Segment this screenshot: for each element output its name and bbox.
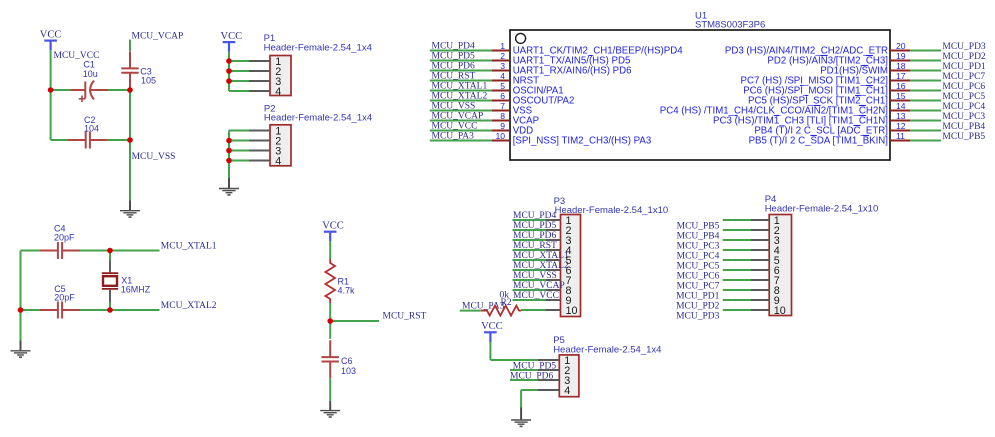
wire MCU_XTAL2 <box>110 309 160 311</box>
svg-text:VCC: VCC <box>40 29 62 40</box>
svg-text:MCU_VSS: MCU_VSS <box>432 102 476 112</box>
svg-text:MCU_RST: MCU_RST <box>383 312 427 322</box>
svg-text:Header-Female-2.54_1x4: Header-Female-2.54_1x4 <box>264 42 372 53</box>
svg-text:MCU_PD6: MCU_PD6 <box>432 62 476 72</box>
U1 pin 19 PD2 (HS)/AIN3/[TIM2_CH3] <box>767 51 941 66</box>
wire P5 pin3 <box>510 379 559 381</box>
power flag VCC (top-left) <box>40 29 62 50</box>
svg-text:19: 19 <box>896 51 906 61</box>
svg-text:MCU_VCC: MCU_VCC <box>513 291 559 301</box>
svg-text:MCU_PC7: MCU_PC7 <box>942 72 985 82</box>
label P5 Header-Female-2.54_1x4 <box>553 335 661 355</box>
header P4 box <box>769 215 791 316</box>
svg-text:6: 6 <box>500 91 505 101</box>
svg-text:MCU_PC4: MCU_PC4 <box>677 252 720 262</box>
svg-text:MCU_XTAL2: MCU_XTAL2 <box>161 301 217 311</box>
svg-text:MCU_PD5: MCU_PD5 <box>513 221 557 231</box>
wire MCU_VCC vertical <box>50 50 52 140</box>
svg-text:105: 105 <box>141 75 156 85</box>
power flag VCC (P5) <box>481 321 503 342</box>
wire xtal left vertical <box>20 251 22 311</box>
label C5 20pF <box>54 284 75 303</box>
header P2 box <box>270 125 291 166</box>
wire C1 left <box>51 89 71 91</box>
svg-text:MCU_PC6: MCU_PC6 <box>942 82 985 92</box>
svg-text:4: 4 <box>275 155 281 167</box>
junction node RST <box>327 318 333 324</box>
wire P2 pin 2 <box>229 140 270 142</box>
power flag VCC (P1) <box>221 31 243 52</box>
capacitor C5 <box>40 302 80 319</box>
svg-text:20pF: 20pF <box>54 232 75 242</box>
wire P4 pin 8 <box>723 289 769 291</box>
svg-text:10: 10 <box>566 305 578 317</box>
svg-text:Header-Female-2.54_1x4: Header-Female-2.54_1x4 <box>553 345 661 356</box>
U1 pin 8 VCAP <box>430 111 539 127</box>
wire P2 pin 4 <box>229 160 270 162</box>
op-amp U1 body STM8S003F3P6 <box>510 30 890 160</box>
svg-text:MCU_RST: MCU_RST <box>432 72 476 82</box>
resistor R2 0k <box>481 306 521 316</box>
wire P3 pin 4 <box>513 249 561 251</box>
svg-text:MCU_PD2: MCU_PD2 <box>676 302 720 312</box>
svg-text:MCU_RST: MCU_RST <box>513 241 557 251</box>
svg-text:MCU_XTAL2: MCU_XTAL2 <box>513 261 569 271</box>
svg-text:10u: 10u <box>83 69 98 79</box>
svg-text:MCU_PD2: MCU_PD2 <box>942 52 986 62</box>
header P5 box <box>559 355 579 397</box>
svg-text:R2: R2 <box>501 298 512 308</box>
resistor R1 <box>325 259 335 303</box>
wire P4 pin 9 <box>723 299 769 301</box>
svg-text:MCU_PC7: MCU_PC7 <box>677 282 720 292</box>
svg-text:MCU_XTAL2: MCU_XTAL2 <box>432 92 488 102</box>
label C6 103 <box>341 356 356 376</box>
wire P4 pin 10 <box>723 309 769 311</box>
svg-text:7: 7 <box>500 101 505 111</box>
svg-text:3: 3 <box>500 61 505 71</box>
U1 pin 6 OSCOUT/PA2 <box>430 91 575 107</box>
wire C4 left <box>21 250 41 252</box>
wire P3 pin 8 <box>513 289 561 291</box>
U1 pin 13 PC3 (HS)/TIM1_CH3 [TLI] [TIM1_CH1N] <box>713 111 941 127</box>
capacitor C2 <box>68 132 108 149</box>
svg-text:MCU_PA3: MCU_PA3 <box>432 132 475 142</box>
label P4 Header-Female-2.54_1x10 <box>765 194 879 215</box>
junction node P2 <box>226 158 232 164</box>
wire VSS vertical <box>129 90 131 201</box>
svg-text:VCC: VCC <box>481 321 503 332</box>
wire P1 pin 3 <box>229 80 270 82</box>
wire P3 pin 2 <box>513 229 561 231</box>
svg-text:VCC: VCC <box>322 221 344 232</box>
label P3 Header-Female-2.54_1x10 <box>554 196 669 216</box>
U1 pin 10 [SPI_NSS] TIM2_CH3/(HS) PA3 <box>430 131 651 147</box>
wire P4 pin 3 <box>723 239 769 241</box>
wire P1 pin 1 <box>229 60 270 62</box>
svg-text:MCU_PD5: MCU_PD5 <box>432 52 476 62</box>
svg-text:14: 14 <box>896 101 906 111</box>
svg-text:STM8S003F3P6: STM8S003F3P6 <box>695 19 765 30</box>
U1 pin 9 VDD <box>430 121 533 137</box>
label P2 Header-Female-2.54_1x4 <box>264 104 372 124</box>
header P1 box <box>270 56 291 96</box>
svg-text:MCU_PD6: MCU_PD6 <box>513 231 557 241</box>
svg-text:MCU_PD1: MCU_PD1 <box>942 62 986 72</box>
capacitor C6 <box>322 321 339 378</box>
svg-text:103: 103 <box>341 366 356 376</box>
U1 pin 1 UART1_CK/TIM2_CH1/BEEP/(HS)PD4 <box>430 41 683 57</box>
wire MCU_RST <box>330 320 379 322</box>
U1 pin 16 PC6 (HS)/SPI_MOSI [TIM1_CH1] <box>743 81 941 97</box>
svg-text:10: 10 <box>774 305 786 317</box>
U1 pin 4 NRST <box>430 71 539 87</box>
svg-text:Header-Female-2.54_1x10: Header-Female-2.54_1x10 <box>765 204 879 215</box>
svg-text:2: 2 <box>500 51 505 61</box>
label 0k R2 <box>500 291 512 308</box>
wire P1 pin 4 <box>229 90 270 92</box>
svg-text:MCU_PC5: MCU_PC5 <box>942 92 985 102</box>
svg-text:20: 20 <box>896 41 906 51</box>
U1 pin 17 PC7 (HS) /SPI_MISO [TIM1_CH2] <box>741 71 942 87</box>
label C1 10u <box>83 60 98 80</box>
svg-text:MCU_PD1: MCU_PD1 <box>676 292 720 302</box>
ground MCU_VSS <box>120 201 140 218</box>
junction node XTAL2 left <box>18 307 24 313</box>
U1 pin 2 UART1_TX/AIN5/(HS) PD5 <box>430 51 631 66</box>
wire P3 pin 5 <box>513 259 561 261</box>
svg-text:MCU_VCAP: MCU_VCAP <box>513 281 565 291</box>
svg-text:104: 104 <box>84 124 99 134</box>
svg-text:11: 11 <box>896 131 905 141</box>
label C3 105 <box>140 67 156 86</box>
svg-text:MCU_VCAP: MCU_VCAP <box>132 32 184 42</box>
wire P3 pin 9 <box>513 299 561 301</box>
svg-text:5: 5 <box>500 81 505 91</box>
svg-text:PB5 (T)/I 2 C_SDA [TIM1_BKIN]: PB5 (T)/I 2 C_SDA [TIM1_BKIN] <box>749 136 888 147</box>
wire P3 pin 3 <box>513 239 561 241</box>
junction node C1/C3 <box>127 87 133 93</box>
svg-text:MCU_PD4: MCU_PD4 <box>432 42 476 52</box>
ground P2 <box>219 178 239 196</box>
svg-text:4: 4 <box>564 385 570 397</box>
svg-text:MCU_PB4: MCU_PB4 <box>942 122 985 132</box>
wire P5 pin2 <box>510 369 559 371</box>
junction node XTAL2 right <box>107 307 113 313</box>
wire C5 right <box>80 309 110 311</box>
svg-text:MCU_PC3: MCU_PC3 <box>942 112 985 122</box>
junction node P2 <box>226 138 232 144</box>
U1 pin 12 PB4 (T)/I 2 C_SCL [ADC_ETR] <box>754 121 941 137</box>
svg-text:10: 10 <box>495 131 505 141</box>
svg-text:MCU_PC4: MCU_PC4 <box>942 102 985 112</box>
ground xtal <box>11 310 31 358</box>
svg-text:MCU_VSS: MCU_VSS <box>132 152 176 162</box>
capacitor C3 <box>121 52 138 90</box>
svg-text:MCU_XTAL1: MCU_XTAL1 <box>513 251 569 261</box>
U1 pin 20 PD3 (HS)/AIN4/TIM2_CH2/ADC_ETR <box>725 41 941 57</box>
svg-text:15: 15 <box>896 91 906 101</box>
wire P3 pin 7 <box>513 279 561 281</box>
junction node P1 <box>226 68 232 74</box>
wire C6 to ground <box>329 378 331 401</box>
svg-text:MCU_PD4: MCU_PD4 <box>513 211 557 221</box>
junction node P1 <box>226 58 232 64</box>
svg-text:17: 17 <box>896 71 906 81</box>
svg-text:13: 13 <box>896 111 906 121</box>
U1 pin 18 PD1(HS)/SWIM <box>820 61 941 77</box>
svg-text:C6: C6 <box>341 356 353 366</box>
wire P4 pin 7 <box>723 279 769 281</box>
svg-text:C1: C1 <box>83 60 95 70</box>
svg-text:Header-Female-2.54_1x4: Header-Female-2.54_1x4 <box>264 113 372 124</box>
svg-text:8: 8 <box>500 111 505 121</box>
svg-text:Header-Female-2.54_1x10: Header-Female-2.54_1x10 <box>555 205 669 216</box>
power flag VCC (R1) <box>322 221 344 242</box>
svg-text:4: 4 <box>275 86 281 98</box>
junction node P1 <box>226 78 232 84</box>
label R1 4.7k <box>338 277 356 296</box>
wire P2 pin 1 <box>229 130 270 132</box>
svg-text:MCU_VCAP: MCU_VCAP <box>432 112 484 122</box>
wire VCC to P5 pin1 <box>490 342 559 360</box>
wire P3 pin 6 <box>513 269 561 271</box>
wire C2 right <box>108 139 130 141</box>
wire P1 pin 2 <box>229 70 270 72</box>
U1 pin 5 OSCIN/PA1 <box>430 81 564 97</box>
wire C1 right <box>108 89 130 91</box>
U1 pin 15 PC5 (HS)/SPI_SCK [TIM2_CH1] <box>748 91 941 107</box>
wire P1 bus vertical <box>228 52 230 91</box>
wire P4 pin 2 <box>723 229 769 231</box>
ground C6 <box>320 401 340 418</box>
svg-text:9: 9 <box>500 121 505 131</box>
svg-text:MCU_PC3: MCU_PC3 <box>677 242 720 252</box>
wire P2 bus vertical <box>228 131 230 178</box>
svg-text:16: 16 <box>896 81 906 91</box>
wire VCC to R1 <box>329 241 331 259</box>
label U1 STM8S003F3P6 <box>695 11 765 31</box>
wire P2 pin 3 <box>229 150 270 152</box>
svg-text:MCU_PB5: MCU_PB5 <box>677 222 720 232</box>
pin1 indicator circle U1 <box>516 33 526 43</box>
wire R1 to node <box>329 303 331 321</box>
wire R2 to P3 pin10 <box>521 309 561 311</box>
svg-text:[SPI_NSS] TIM2_CH3/(HS) PA3: [SPI_NSS] TIM2_CH3/(HS) PA3 <box>513 136 652 147</box>
wire MCU_VCAP <box>129 40 131 52</box>
svg-text:4.7k: 4.7k <box>338 286 356 296</box>
svg-text:16MHZ: 16MHZ <box>121 285 151 295</box>
U1 pin 7 VSS <box>430 101 533 117</box>
svg-text:MCU_PB5: MCU_PB5 <box>942 132 985 142</box>
svg-text:MCU_PD3: MCU_PD3 <box>942 42 986 52</box>
svg-text:MCU_PC5: MCU_PC5 <box>677 262 720 272</box>
U1 pin 3 UART1_RX/AIN6/(HS) PD6 <box>430 61 632 77</box>
label X1 16MHZ <box>121 275 151 294</box>
wire MCU_PA3 <box>460 310 481 312</box>
header P3 box <box>561 215 581 317</box>
wire MCU_XTAL1 <box>110 250 160 252</box>
svg-text:1: 1 <box>500 41 505 51</box>
junction node XTAL1 <box>107 248 113 254</box>
wire C2 left <box>51 139 71 141</box>
svg-text:VCC: VCC <box>221 31 243 42</box>
wire P4 pin 5 <box>723 259 769 261</box>
wire P4 pin 6 <box>723 269 769 271</box>
capacitor C4 <box>40 242 80 259</box>
wire P5 pin4 to ground <box>521 390 559 408</box>
U1 pin 11 PB5 (T)/I 2 C_SDA [TIM1_BKIN] <box>749 131 941 147</box>
label P1 Header-Female-2.54_1x4 <box>264 33 372 53</box>
wire P4 pin 4 <box>723 249 769 251</box>
svg-text:MCU_PC6: MCU_PC6 <box>677 272 720 282</box>
crystal X1 <box>102 251 118 311</box>
svg-text:MCU_PB4: MCU_PB4 <box>677 232 720 242</box>
svg-text:MCU_XTAL1: MCU_XTAL1 <box>432 82 488 92</box>
svg-text:MCU_PD3: MCU_PD3 <box>676 312 720 322</box>
svg-text:12: 12 <box>896 121 906 131</box>
U1 pin 14 PC4 (HS) /TIM1_CH4/CLK_CCO/AIN2/[TIM1_CH2N] <box>660 101 941 117</box>
ground P5 <box>511 408 531 428</box>
junction node C1/VCC <box>48 87 54 93</box>
svg-text:MCU_XTAL1: MCU_XTAL1 <box>161 242 217 252</box>
svg-text:MCU_VCC: MCU_VCC <box>432 122 478 132</box>
svg-text:4: 4 <box>500 71 505 81</box>
svg-text:MCU_VSS: MCU_VSS <box>513 271 557 281</box>
wire C5 left <box>21 309 41 311</box>
junction node C2/VSS <box>127 137 133 143</box>
label C2 104 <box>84 115 99 134</box>
capacitor C1 polarized <box>71 81 109 103</box>
junction node P2 <box>226 148 232 154</box>
wire P3 pin 1 <box>513 219 561 221</box>
svg-text:18: 18 <box>896 61 906 71</box>
wire C4 right <box>80 250 110 252</box>
label C4 20pF <box>54 223 75 242</box>
wire P4 pin 1 <box>723 219 769 221</box>
svg-text:20pF: 20pF <box>54 293 75 303</box>
